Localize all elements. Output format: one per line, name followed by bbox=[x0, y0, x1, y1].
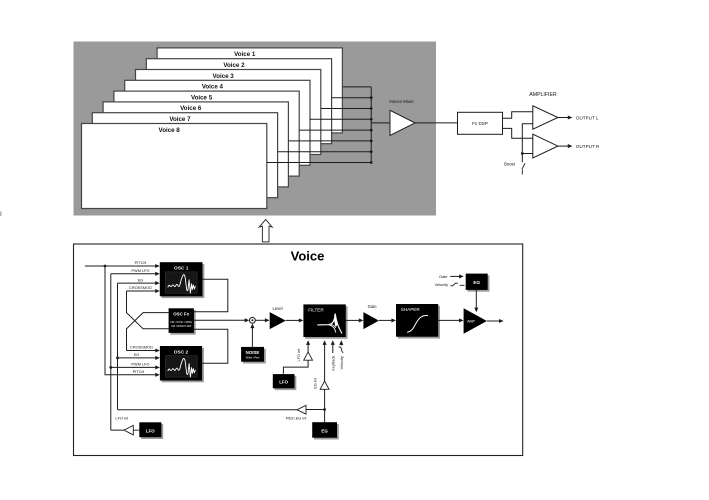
output amp R U3 bbox=[533, 134, 558, 158]
pitch eg block bbox=[312, 422, 339, 439]
wire voice 3 output bbox=[321, 108, 371, 110]
svg-text:FM / SYNC / RING: FM / SYNC / RING bbox=[170, 320, 192, 324]
svg-text:Velocity: Velocity bbox=[339, 356, 344, 369]
wire pitch eg line bbox=[306, 409, 325, 411]
wire Fx DSP to amp R bbox=[503, 128, 533, 138]
svg-text:LFO int: LFO int bbox=[296, 348, 301, 362]
voice 6 box bbox=[103, 102, 288, 187]
svg-text:FILTER: FILTER bbox=[308, 307, 324, 312]
level amp bbox=[270, 312, 286, 329]
svg-text:OSC 2: OSC 2 bbox=[174, 349, 189, 355]
eg bus vertical bbox=[117, 283, 119, 409]
wire pwm lfo to osc2 bbox=[111, 366, 156, 368]
svg-text:Velocity: Velocity bbox=[435, 282, 448, 287]
wire eg to osc2 bbox=[118, 357, 156, 359]
wire voice 6 output bbox=[288, 140, 371, 142]
wire pitch main line bbox=[85, 265, 156, 267]
junction voice 7 bbox=[370, 150, 373, 153]
voice mixer input bus bbox=[370, 87, 372, 163]
junction eg osc2 bbox=[116, 357, 119, 360]
svg-text:PWM LFO: PWM LFO bbox=[131, 268, 149, 273]
shaper block bbox=[396, 304, 440, 339]
svg-text:CROSSMOD: CROSSMOD bbox=[129, 285, 152, 290]
amp block bbox=[464, 308, 487, 333]
svg-text:Voice 6: Voice 6 bbox=[180, 105, 202, 112]
wire voice 8 output bbox=[267, 162, 371, 164]
lfo filter block bbox=[273, 374, 297, 390]
wire pwm lfo to osc1 bbox=[111, 273, 156, 275]
eg int attenuator bbox=[320, 381, 329, 389]
svg-text:EG: EG bbox=[138, 277, 144, 282]
oscillator OSC 2 bbox=[160, 346, 204, 382]
svg-text:OSC 1: OSC 1 bbox=[174, 266, 189, 272]
svg-text:Keytrack: Keytrack bbox=[330, 356, 335, 371]
velocity filter curve symbol bbox=[339, 347, 344, 353]
wire output L bbox=[558, 117, 568, 119]
wire lfo to attenuator bbox=[133, 429, 139, 431]
wire voice 2 output bbox=[332, 97, 372, 99]
wire eg to amp bbox=[475, 290, 477, 308]
svg-text:NOISE: NOISE bbox=[246, 350, 260, 355]
svg-text:OUTPUT L: OUTPUT L bbox=[576, 115, 599, 120]
page edge smudge bbox=[0, 212, 2, 217]
svg-text:Voice 4: Voice 4 bbox=[202, 84, 224, 91]
wire filter to gain amp bbox=[346, 319, 359, 321]
noise block bbox=[241, 347, 266, 364]
voice 1 box bbox=[157, 48, 342, 133]
voice 7 box bbox=[92, 113, 277, 198]
wire output R bbox=[558, 145, 568, 147]
pwm lfo block bbox=[139, 422, 163, 439]
wire pitch eg to eg bus bbox=[118, 409, 298, 411]
shaper curve bbox=[407, 315, 428, 332]
svg-text:Gate: Gate bbox=[439, 274, 447, 279]
velocity curve symbol bbox=[450, 283, 458, 286]
junction pitch eg bbox=[323, 408, 326, 411]
svg-text:EG: EG bbox=[321, 428, 328, 433]
wire Fx DSP to amp L bbox=[503, 112, 533, 119]
wire eg int to filter bbox=[324, 345, 326, 382]
svg-text:Level: Level bbox=[272, 306, 282, 311]
wire voice 4 output bbox=[310, 118, 371, 120]
svg-text:EG: EG bbox=[473, 280, 480, 285]
wire shaper to amp bbox=[438, 319, 459, 321]
svg-text:LFO int: LFO int bbox=[115, 415, 129, 420]
wire osc2 out to osc fx bbox=[194, 329, 228, 363]
wire gate to eg bbox=[450, 275, 459, 277]
velocity filter wire bbox=[340, 344, 342, 346]
wire bus to voices mixer bbox=[371, 122, 390, 124]
wire lfo int to filter bbox=[307, 345, 309, 352]
svg-text:Voice 5: Voice 5 bbox=[191, 94, 213, 101]
keytrack wire bbox=[332, 345, 334, 353]
svg-text:Voice: Voice bbox=[291, 248, 325, 263]
svg-text:Voices Mixer: Voices Mixer bbox=[389, 99, 414, 104]
junction voice 8 bbox=[370, 161, 373, 164]
svg-text:Voice 1: Voice 1 bbox=[234, 51, 256, 58]
filter block bbox=[303, 304, 347, 338]
svg-text:Fx DSP: Fx DSP bbox=[472, 121, 488, 126]
wire lfo to lfo int attenuator bbox=[283, 360, 308, 374]
block arrow voice to mixer bbox=[259, 219, 272, 242]
lfo int attenuator bbox=[304, 352, 313, 360]
output amp L U2 bbox=[533, 106, 558, 129]
voice 3 box bbox=[136, 70, 321, 155]
junction voice 3 bbox=[370, 107, 373, 110]
amp eg block bbox=[466, 274, 490, 292]
svg-text:Gain: Gain bbox=[368, 304, 378, 309]
junction pitch bus bbox=[104, 265, 107, 268]
svg-text:OUTPUT R: OUTPUT R bbox=[576, 144, 600, 149]
svg-text:CM / RING'S MIX: CM / RING'S MIX bbox=[171, 324, 192, 328]
crossmod cross wires bbox=[127, 291, 169, 329]
svg-text:SHAPER: SHAPER bbox=[401, 307, 421, 312]
wire velocity to eg bbox=[460, 284, 465, 286]
wire eg to eg int attenuator bbox=[324, 389, 326, 422]
junction boost bbox=[521, 152, 524, 155]
voice 5 box bbox=[114, 91, 299, 176]
pitch eg attenuator bbox=[297, 405, 306, 414]
svg-text:CROSSMOD: CROSSMOD bbox=[130, 345, 153, 350]
svg-text:PITCH: PITCH bbox=[135, 260, 147, 265]
wire crossmod to osc2 bbox=[127, 350, 156, 352]
filter curve bbox=[317, 314, 342, 334]
oscillator OSC 1 bbox=[160, 262, 205, 298]
svg-text:EG int: EG int bbox=[313, 377, 318, 389]
wire crossmod to osc1 bbox=[127, 290, 156, 292]
svg-text:AMPLIFIER: AMPLIFIER bbox=[529, 92, 557, 98]
wire eg to osc1 bbox=[118, 282, 156, 284]
wire voice 7 output bbox=[278, 151, 372, 153]
svg-text:EG: EG bbox=[134, 352, 140, 357]
voice 2 box bbox=[146, 59, 331, 144]
wire mixer to Fx DSP bbox=[415, 122, 458, 124]
wire mix node to level amp bbox=[255, 319, 265, 321]
gray background panel bbox=[74, 42, 437, 216]
mix node bbox=[250, 317, 256, 323]
svg-text:Voice 8: Voice 8 bbox=[159, 127, 181, 134]
junction voice 2 bbox=[370, 96, 373, 99]
svg-text:PITCH: PITCH bbox=[133, 369, 145, 374]
junction voice 6 bbox=[370, 140, 373, 143]
svg-text:Voice 7: Voice 7 bbox=[169, 116, 191, 123]
wire level to filter bbox=[286, 319, 299, 321]
svg-text:LFO: LFO bbox=[279, 380, 288, 385]
svg-text:Pitch EG int: Pitch EG int bbox=[286, 415, 307, 420]
junction voice 4 bbox=[370, 118, 373, 121]
boost switch SW1 bbox=[522, 163, 525, 169]
wire noise to mix node bbox=[251, 327, 253, 347]
svg-text:Voice 2: Voice 2 bbox=[223, 62, 245, 69]
wire boost to amp R bbox=[522, 153, 533, 155]
Fx DSP block bbox=[458, 112, 503, 134]
voice 4 box bbox=[125, 80, 310, 165]
wire gain to shaper bbox=[379, 319, 392, 321]
junction voice 5 bbox=[370, 129, 373, 132]
osc fx block bbox=[169, 308, 196, 334]
osc2 waveform panel bbox=[165, 356, 197, 377]
svg-text:PWM LFO: PWM LFO bbox=[131, 362, 149, 367]
wire lfo attenuator to pwm bus bbox=[111, 429, 124, 431]
gain amp bbox=[363, 312, 379, 329]
boost bus wire bbox=[522, 124, 533, 162]
svg-text:AMP: AMP bbox=[467, 320, 475, 324]
junction pwm lfo osc2 bbox=[109, 366, 112, 369]
voice detail outer box bbox=[74, 244, 523, 456]
voice 8 box bbox=[82, 124, 267, 209]
osc1 waveform panel bbox=[165, 272, 197, 293]
osc1 waveform bbox=[168, 275, 196, 294]
wire amp out bbox=[487, 320, 500, 322]
pitch bus vertical bbox=[105, 266, 156, 375]
svg-text:OSC Fx: OSC Fx bbox=[173, 312, 189, 317]
pwm lfo bus vertical bbox=[110, 274, 112, 430]
wire osc fx out to mix node bbox=[194, 319, 245, 321]
voices mixer amp U1 bbox=[390, 110, 415, 135]
wire voice 1 output bbox=[342, 86, 371, 88]
svg-text:Boost: Boost bbox=[504, 161, 516, 166]
wire voice 5 output bbox=[299, 129, 371, 131]
svg-text:Voice 3: Voice 3 bbox=[213, 73, 235, 80]
svg-text:LFO: LFO bbox=[146, 428, 155, 433]
wire osc1 out to osc fx bbox=[194, 279, 228, 312]
lfo int bottom attenuator bbox=[124, 425, 133, 435]
svg-text:White / Pink: White / Pink bbox=[246, 355, 261, 359]
osc2 waveform bbox=[168, 358, 196, 377]
